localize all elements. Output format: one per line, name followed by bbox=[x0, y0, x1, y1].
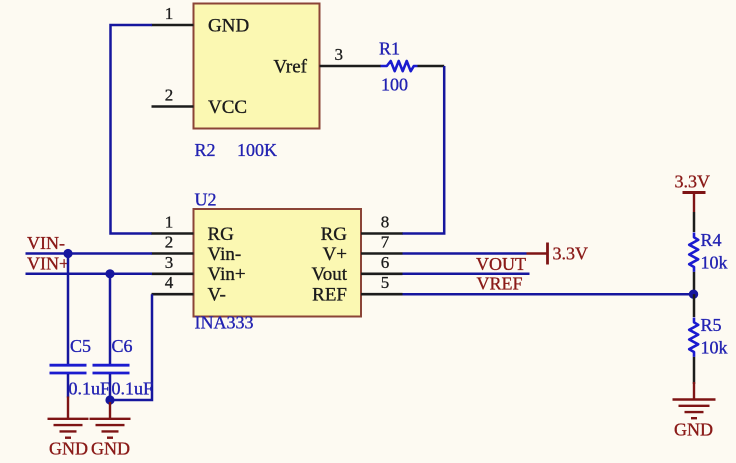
svg-text:Vin+: Vin+ bbox=[208, 264, 246, 285]
wire U2 pin5 REF to divider bbox=[403, 293, 694, 296]
svg-text:0.1uF: 0.1uF bbox=[112, 379, 154, 399]
svg-text:REF: REF bbox=[312, 285, 347, 306]
svg-text:VCC: VCC bbox=[208, 97, 247, 118]
svg-text:100: 100 bbox=[381, 75, 408, 95]
svg-text:2: 2 bbox=[165, 233, 174, 252]
svg-text:VOUT: VOUT bbox=[476, 254, 526, 274]
svg-text:GND: GND bbox=[208, 16, 249, 37]
wire 3.3V to R4 bbox=[693, 212, 696, 232]
wire vertical R1 to U2 pin 8 bbox=[402, 66, 444, 234]
svg-text:GND: GND bbox=[49, 439, 88, 459]
U2 pin 6 Vout bbox=[361, 272, 403, 275]
svg-text:10k: 10k bbox=[701, 338, 728, 358]
svg-text:RG: RG bbox=[208, 224, 235, 245]
U2 pin 8 RG bbox=[361, 232, 403, 235]
svg-text:R2: R2 bbox=[195, 140, 216, 160]
svg-text:8: 8 bbox=[381, 213, 390, 232]
svg-text:4: 4 bbox=[165, 273, 174, 292]
svg-text:R1: R1 bbox=[379, 39, 400, 59]
svg-text:Vin-: Vin- bbox=[208, 244, 242, 265]
svg-text:1: 1 bbox=[165, 213, 174, 232]
svg-text:6: 6 bbox=[381, 253, 390, 272]
ground under R5 bbox=[673, 382, 716, 418]
svg-text:Vref: Vref bbox=[273, 57, 307, 78]
svg-text:5: 5 bbox=[381, 273, 390, 292]
resistor R1 bbox=[381, 61, 418, 71]
R2 pin 3 (Vref) bbox=[320, 65, 382, 68]
svg-text:3: 3 bbox=[165, 253, 174, 272]
component R2 body bbox=[194, 4, 320, 129]
U2 pin 1 RG bbox=[152, 232, 194, 235]
svg-text:1: 1 bbox=[165, 4, 174, 23]
svg-text:Vout: Vout bbox=[311, 264, 347, 285]
ground under C6 bbox=[90, 402, 131, 438]
wire U2 pin7 to 3.3V bbox=[403, 252, 527, 255]
svg-text:C5: C5 bbox=[70, 336, 91, 356]
svg-text:GND: GND bbox=[91, 439, 130, 459]
resistor R5 bbox=[689, 318, 698, 357]
svg-text:100K: 100K bbox=[237, 140, 277, 160]
U2 pin 5 REF bbox=[361, 293, 403, 296]
svg-text:RG: RG bbox=[321, 224, 348, 245]
svg-text:C6: C6 bbox=[112, 336, 133, 356]
wire U2 pin6 VOUT bbox=[403, 273, 530, 276]
R2 pin 2 (VCC) bbox=[152, 105, 194, 108]
wire R1 to corner bbox=[418, 65, 445, 68]
svg-text:GND: GND bbox=[674, 420, 713, 440]
svg-text:R4: R4 bbox=[701, 230, 722, 250]
wire VIN- to pin 2 bbox=[26, 252, 153, 255]
wire R5 to ground bbox=[693, 357, 696, 384]
svg-text:3.3V: 3.3V bbox=[553, 244, 589, 264]
capacitor C5 bbox=[67, 254, 70, 365]
wire R4 to junction bbox=[693, 272, 696, 294]
svg-text:VREF: VREF bbox=[477, 274, 523, 294]
svg-text:7: 7 bbox=[381, 233, 390, 252]
svg-text:V-: V- bbox=[208, 285, 226, 306]
svg-text:U2: U2 bbox=[195, 190, 217, 210]
svg-text:VIN-: VIN- bbox=[27, 233, 65, 253]
svg-text:0.1uF: 0.1uF bbox=[69, 379, 111, 399]
resistor R4 bbox=[689, 233, 698, 272]
svg-text:V+: V+ bbox=[323, 244, 347, 265]
R2 pin 1 (GND) bbox=[152, 24, 194, 27]
wire U2 pin4 V- down to C6 bottom bbox=[110, 294, 152, 400]
junction VIN+/C6 bbox=[105, 269, 114, 278]
ground under C5 bbox=[48, 397, 89, 438]
U2 pin 7 V+ bbox=[361, 252, 403, 255]
junction VIN-/C5 bbox=[63, 249, 72, 258]
U2 pin 3 Vin+ bbox=[152, 272, 194, 275]
junction C6 bottom bbox=[105, 395, 114, 404]
U2 pin 2 Vin- bbox=[152, 252, 194, 255]
svg-text:VIN+: VIN+ bbox=[27, 254, 69, 274]
wire VIN+ to pin 3 bbox=[26, 273, 153, 276]
svg-text:10k: 10k bbox=[701, 253, 728, 273]
power port 3.3V (pin7) bbox=[527, 243, 548, 265]
wire junction to R5 bbox=[693, 294, 696, 317]
svg-text:R5: R5 bbox=[701, 315, 722, 335]
wire R2 pin1 to U2 pin1 bbox=[111, 25, 153, 234]
op-amp U2 body (INA333) bbox=[194, 209, 362, 317]
svg-text:2: 2 bbox=[165, 86, 174, 105]
capacitor C6 bbox=[109, 274, 112, 364]
svg-text:3: 3 bbox=[335, 45, 344, 64]
U2 pin 4 V- bbox=[152, 293, 194, 296]
junction REF/divider bbox=[689, 290, 698, 299]
svg-text:INA333: INA333 bbox=[195, 313, 254, 333]
svg-text:3.3V: 3.3V bbox=[675, 172, 711, 192]
